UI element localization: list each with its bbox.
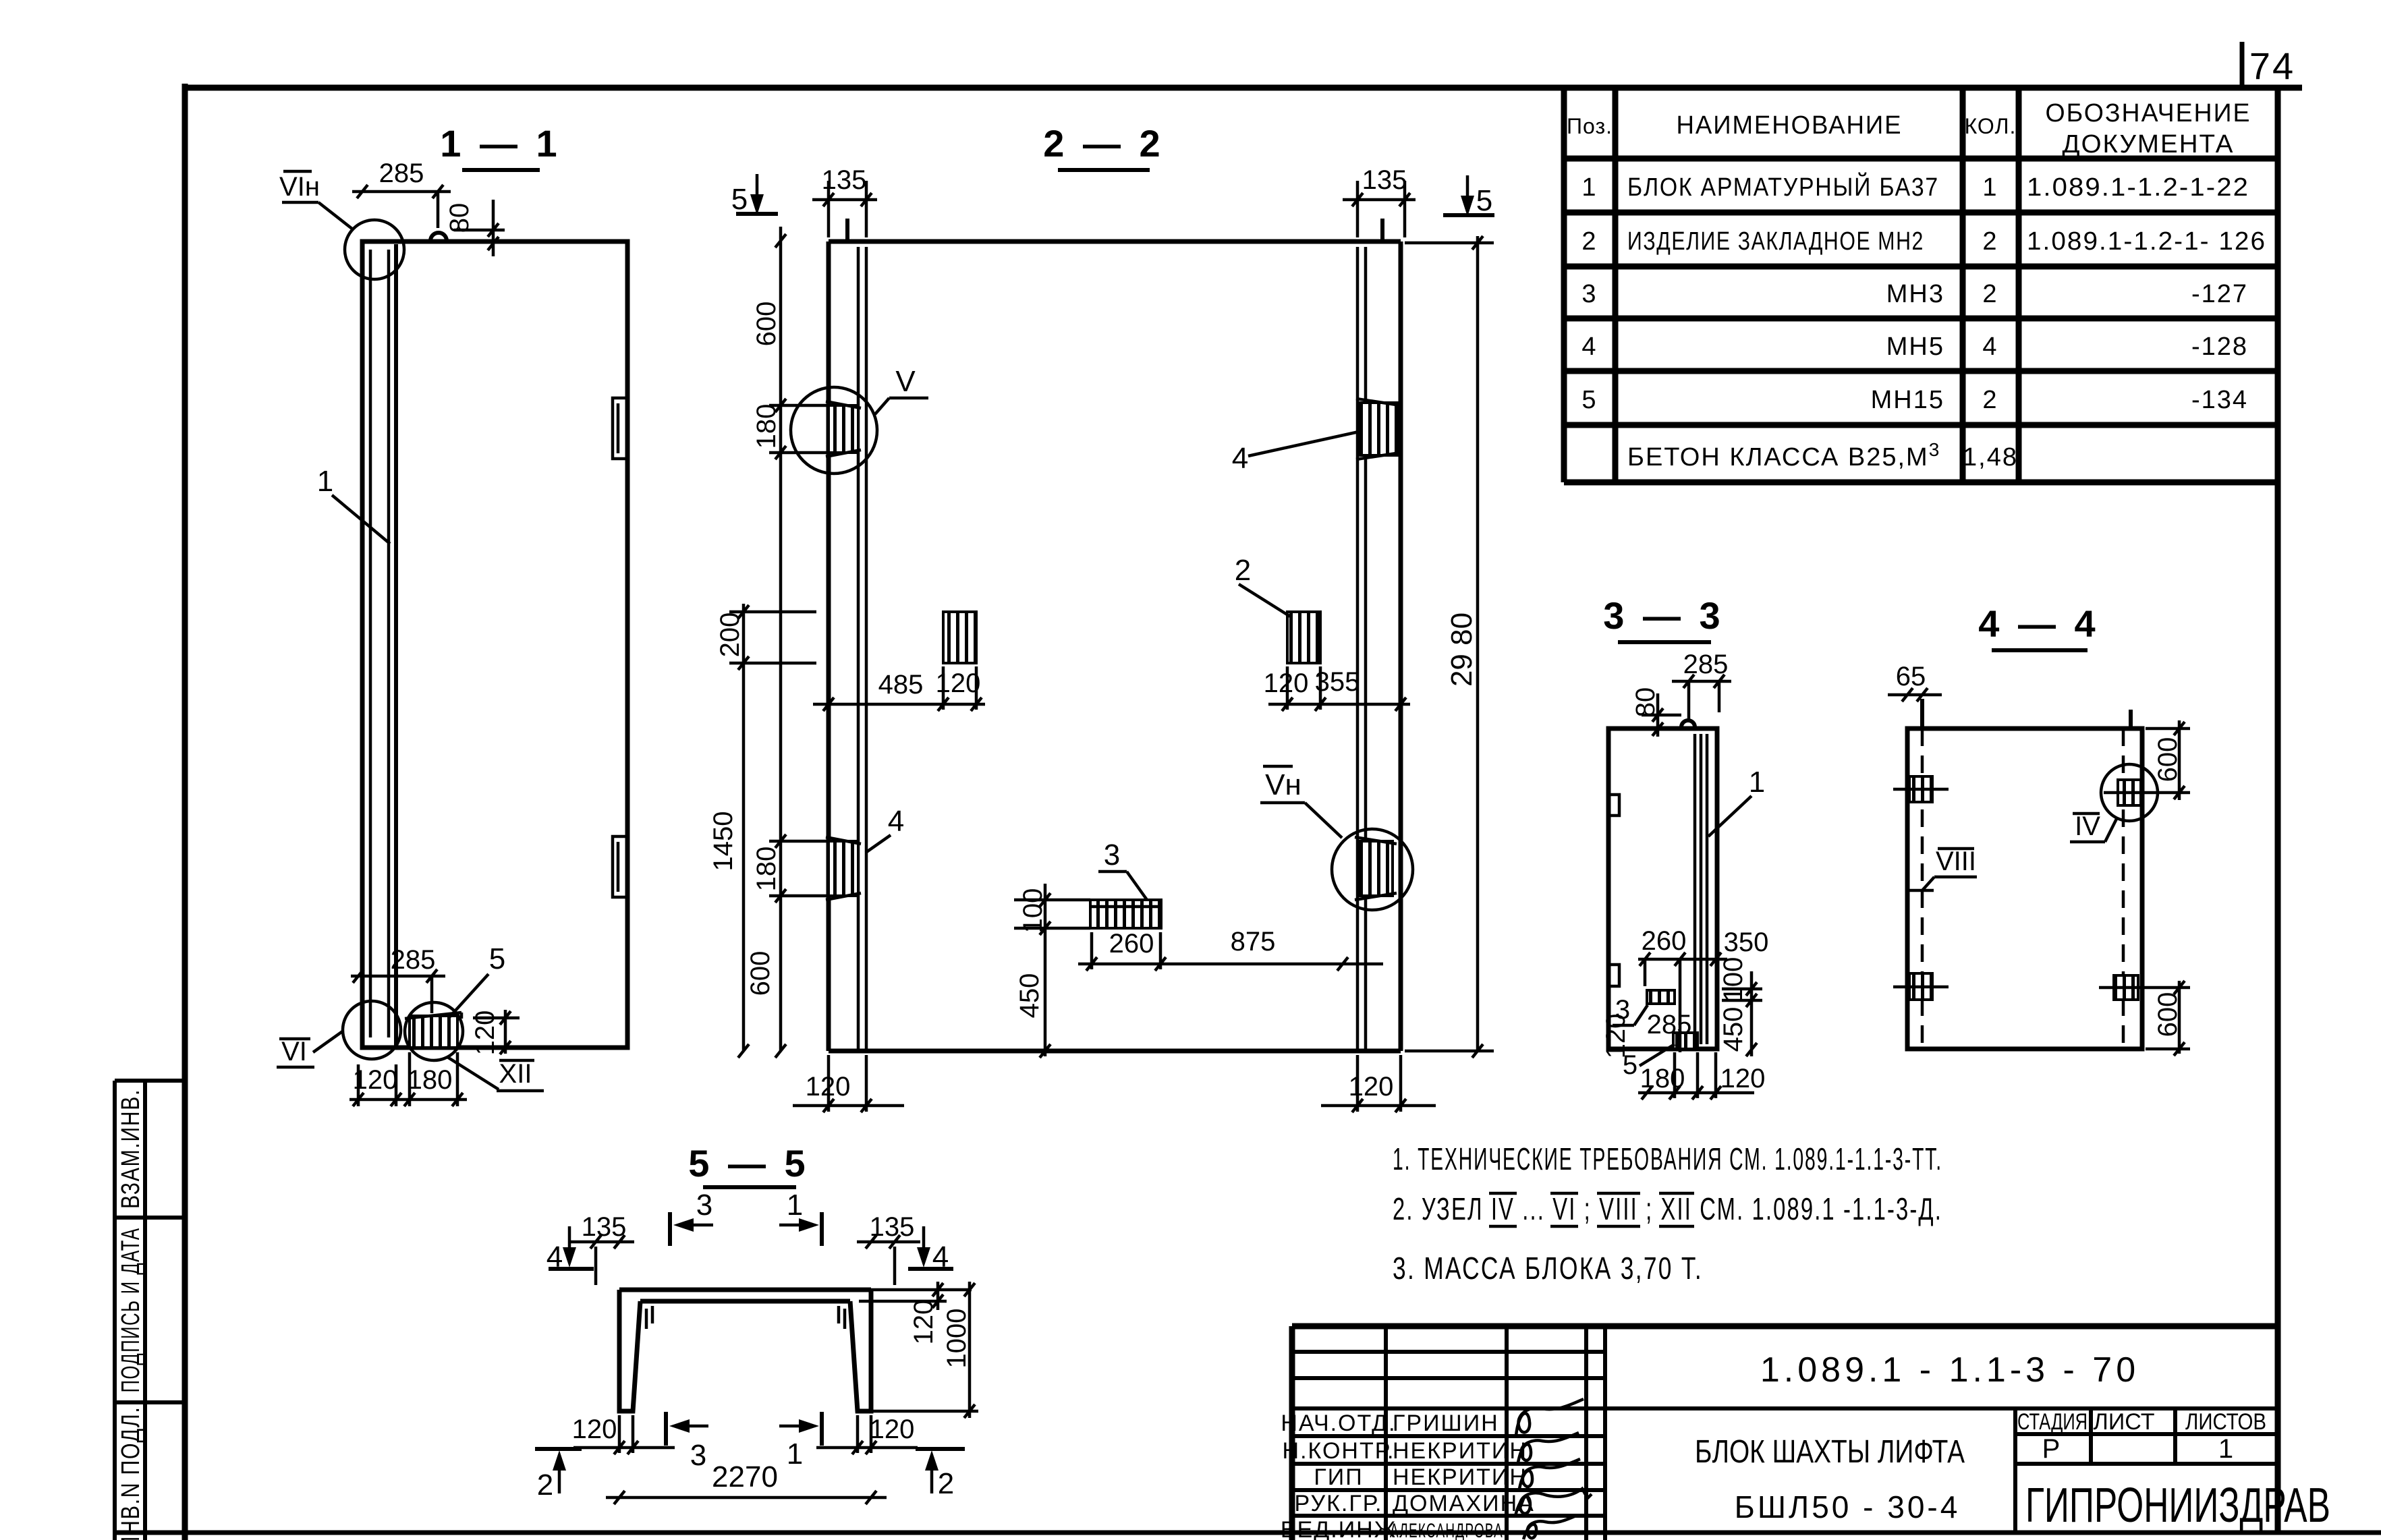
svg-text:ВЗАМ.ИНВ.: ВЗАМ.ИНВ. <box>117 1089 145 1209</box>
svg-text:КОЛ.: КОЛ. <box>1965 114 2017 138</box>
svg-text:БЕТОН КЛАССА В25,М3: БЕТОН КЛАССА В25,М3 <box>1627 439 1940 472</box>
svg-text:НАЧ.ОТД.: НАЧ.ОТД. <box>1281 1410 1396 1436</box>
svg-text:1: 1 <box>787 1437 803 1471</box>
svg-text:VIн: VIн <box>279 172 320 202</box>
svg-text:1,48: 1,48 <box>1963 443 2018 472</box>
svg-text:120: 120 <box>1720 1064 1766 1093</box>
svg-text:285: 285 <box>391 945 436 975</box>
svg-text:Vн: Vн <box>1265 768 1301 801</box>
svg-text:74: 74 <box>2249 45 2295 87</box>
svg-text:2270: 2270 <box>712 1460 778 1493</box>
svg-text:2: 2 <box>938 1467 954 1500</box>
svg-text:Н.КОНТР.: Н.КОНТР. <box>1283 1438 1395 1464</box>
svg-text:1450: 1450 <box>708 811 738 872</box>
svg-text:2: 2 <box>1982 227 1998 256</box>
svg-text:875: 875 <box>1231 927 1276 957</box>
svg-text:VI: VI <box>281 1037 307 1066</box>
svg-text:2: 2 <box>537 1468 553 1502</box>
svg-text:1: 1 <box>317 465 333 498</box>
svg-text:5: 5 <box>1476 184 1492 217</box>
svg-text:-127: -127 <box>2191 280 2248 308</box>
svg-text:180: 180 <box>408 1065 453 1095</box>
svg-text:260: 260 <box>1109 929 1154 959</box>
svg-text:4: 4 <box>1232 442 1248 475</box>
svg-text:3: 3 <box>1581 280 1597 308</box>
svg-text:120: 120 <box>870 1415 915 1444</box>
svg-text:4: 4 <box>888 805 904 838</box>
svg-text:5 — 5: 5 — 5 <box>688 1142 809 1185</box>
svg-text:285: 285 <box>379 159 424 188</box>
svg-text:ВЕД.ИНЖ: ВЕД.ИНЖ <box>1281 1517 1397 1540</box>
svg-text:1.089.1-1.2-1- 126: 1.089.1-1.2-1- 126 <box>2027 227 2266 256</box>
svg-text:80: 80 <box>1631 687 1660 718</box>
svg-text:1: 1 <box>787 1189 803 1222</box>
svg-text:1: 1 <box>1982 173 1998 202</box>
svg-text:2: 2 <box>1235 554 1251 587</box>
svg-text:200: 200 <box>715 612 745 658</box>
svg-text:285: 285 <box>1683 650 1729 679</box>
svg-text:3: 3 <box>1104 838 1120 872</box>
svg-text:4: 4 <box>1581 333 1597 361</box>
svg-text:ГИП: ГИП <box>1314 1464 1363 1490</box>
svg-text:БЛОК АРМАТУРНЫЙ БА37: БЛОК АРМАТУРНЫЙ БА37 <box>1627 171 1939 202</box>
svg-text:ЛИСТОВ: ЛИСТОВ <box>2185 1409 2266 1435</box>
svg-text:1 — 1: 1 — 1 <box>440 122 561 165</box>
svg-text:ИЗДЕЛИЕ ЗАКЛАДНОЕ МН2: ИЗДЕЛИЕ ЗАКЛАДНОЕ МН2 <box>1627 227 1924 256</box>
svg-text:МН15: МН15 <box>1871 386 1944 414</box>
svg-text:1.089.1-1.2-1-22: 1.089.1-1.2-1-22 <box>2027 173 2249 202</box>
svg-text:1. ТЕХНИЧЕСКИЕ ТРЕБОВАНИЯ СМ: 1. ТЕХНИЧЕСКИЕ ТРЕБОВАНИЯ СМ. 1.089.1-1.… <box>1393 1141 1942 1176</box>
svg-text:5: 5 <box>1581 386 1597 414</box>
svg-text:РУК.ГР.: РУК.ГР. <box>1295 1491 1383 1516</box>
svg-text:ГИПРОНИИЗДРАВ: ГИПРОНИИЗДРАВ <box>2025 1479 2330 1533</box>
svg-text:НАИМЕНОВАНИЕ: НАИМЕНОВАНИЕ <box>1677 111 1903 140</box>
svg-text:4: 4 <box>1982 333 1998 361</box>
svg-text:3. МАССА БЛОКА 3,70 Т.: 3. МАССА БЛОКА 3,70 Т. <box>1393 1251 1703 1286</box>
svg-text:1: 1 <box>1749 766 1765 799</box>
svg-text:-134: -134 <box>2191 386 2248 414</box>
svg-text:120: 120 <box>1349 1072 1394 1102</box>
svg-text:1000: 1000 <box>942 1309 972 1369</box>
svg-text:XII: XII <box>499 1059 532 1089</box>
svg-text:260: 260 <box>1642 926 1687 956</box>
svg-text:135: 135 <box>1362 165 1407 195</box>
svg-text:1: 1 <box>1581 173 1597 202</box>
svg-text:135: 135 <box>582 1212 627 1242</box>
svg-text:БШЛ50 - 30-4: БШЛ50 - 30-4 <box>1735 1489 1961 1524</box>
svg-text:ИНВ.N ПОДЛ.: ИНВ.N ПОДЛ. <box>117 1406 145 1540</box>
svg-text:600: 600 <box>752 302 781 347</box>
svg-text:3 — 3: 3 — 3 <box>1603 594 1724 637</box>
svg-text:ПОДПИСЬ И ДАТА: ПОДПИСЬ И ДАТА <box>117 1228 145 1393</box>
svg-text:ЛИСТ: ЛИСТ <box>2094 1409 2155 1435</box>
svg-text:29 80: 29 80 <box>1445 612 1478 687</box>
svg-text:2 — 2: 2 — 2 <box>1043 122 1164 165</box>
svg-text:СТАДИЯ: СТАДИЯ <box>2017 1409 2088 1435</box>
svg-text:2: 2 <box>1581 227 1597 256</box>
svg-text:Р: Р <box>2042 1434 2061 1464</box>
svg-text:120: 120 <box>572 1415 617 1444</box>
svg-text:600: 600 <box>746 951 775 996</box>
svg-text:ГРИШИН: ГРИШИН <box>1393 1410 1499 1436</box>
svg-text:285: 285 <box>1647 1010 1692 1039</box>
svg-text:450: 450 <box>1015 973 1044 1019</box>
svg-text:350: 350 <box>1724 928 1769 957</box>
svg-text:IV: IV <box>2075 811 2100 841</box>
svg-text:ДОКУМЕНТА: ДОКУМЕНТА <box>2063 130 2235 159</box>
svg-text:5: 5 <box>489 942 505 975</box>
svg-text:АЛЕКСАНДРОВА: АЛЕКСАНДРОВА <box>1390 1520 1503 1540</box>
svg-text:МН5: МН5 <box>1886 333 1944 361</box>
svg-text:80: 80 <box>445 203 474 233</box>
svg-text:485: 485 <box>878 670 924 700</box>
svg-text:VIII: VIII <box>1936 847 1976 876</box>
svg-text:100: 100 <box>1718 957 1748 1002</box>
svg-text:НЕКРИТИН: НЕКРИТИН <box>1393 1438 1528 1464</box>
svg-text:ДОМАХИНА: ДОМАХИНА <box>1393 1491 1535 1516</box>
svg-text:V: V <box>895 365 916 398</box>
svg-text:3: 3 <box>696 1189 712 1222</box>
svg-text:ОБОЗНАЧЕНИЕ: ОБОЗНАЧЕНИЕ <box>2046 99 2251 127</box>
svg-text:450: 450 <box>1718 1007 1748 1052</box>
svg-text:180: 180 <box>752 404 781 449</box>
svg-text:2: 2 <box>1982 386 1998 414</box>
svg-text:1.089.1 - 1.1-3 - 70: 1.089.1 - 1.1-3 - 70 <box>1760 1350 2139 1390</box>
svg-text:5: 5 <box>731 183 748 216</box>
svg-text:2. УЗЕЛ IV ... VI ; VIII ; XI: 2. УЗЕЛ IV ... VI ; VIII ; XII СМ. 1.089… <box>1393 1191 1942 1226</box>
svg-text:2: 2 <box>1982 280 1998 308</box>
svg-text:НЕКРИТИН: НЕКРИТИН <box>1393 1464 1528 1490</box>
svg-text:120: 120 <box>1601 1014 1631 1059</box>
svg-text:Поз.: Поз. <box>1567 114 1613 138</box>
svg-text:65: 65 <box>1896 662 1926 691</box>
svg-text:3: 3 <box>690 1439 706 1472</box>
svg-text:180: 180 <box>752 847 781 892</box>
svg-text:4 — 4: 4 — 4 <box>1978 602 2099 645</box>
svg-text:БЛОК ШАХТЫ ЛИФТА: БЛОК ШАХТЫ ЛИФТА <box>1695 1434 1965 1470</box>
svg-text:100: 100 <box>1018 888 1048 934</box>
svg-text:МН3: МН3 <box>1886 280 1944 308</box>
svg-text:1: 1 <box>2218 1434 2233 1464</box>
svg-text:-128: -128 <box>2191 333 2248 361</box>
